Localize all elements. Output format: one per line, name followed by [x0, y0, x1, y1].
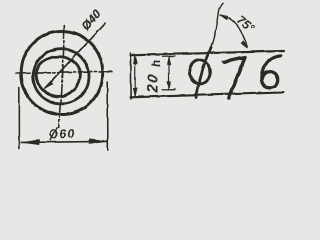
inner circle [36, 57, 80, 97]
height dimension line 20 [134, 55, 136, 96]
extension line right [106, 82, 108, 150]
big phi slant stroke extended (75 deg line) [196, 48, 211, 98]
phi symbol of 60 [49, 129, 57, 139]
digit 6 [261, 55, 280, 87]
svg-text:h: h [151, 59, 163, 66]
arc arrowhead lower [241, 40, 248, 48]
leader line phi40 [45, 23, 105, 88]
middle circle [33, 49, 89, 104]
big phi ellipse [189, 60, 209, 84]
rotated text 20 [144, 73, 161, 94]
arrow down of dim h [167, 81, 171, 89]
svg-text:60: 60 [59, 126, 75, 141]
dimension line phi60 [21, 141, 107, 142]
outer circle [21, 31, 103, 114]
digit-height dim top tick [162, 55, 175, 57]
text 75 deg [234, 13, 257, 35]
right view: top guide line [130, 51, 284, 55]
arrow down of dim 20 [133, 88, 137, 97]
arrow left of phi60 [21, 139, 39, 144]
horizontal center line [16, 71, 112, 73]
text phi40 (rotated along leader) [79, 7, 104, 33]
digit-height dim line h [168, 56, 170, 89]
leader arrowhead [44, 82, 52, 89]
digit-height dim bottom tick [162, 88, 175, 90]
phi slash of 60 [50, 127, 56, 139]
extension line left [18, 87, 20, 149]
right view: bottom guide line [130, 92, 284, 97]
arc arrowhead upper [220, 14, 228, 19]
digit 7 leg [228, 57, 244, 97]
left cap line [129, 53, 131, 99]
arrow up of dim 20 [133, 55, 137, 64]
digit 7 top bar [223, 57, 244, 62]
arrow right of phi60 [89, 139, 107, 144]
arrow up of dim h [167, 56, 171, 64]
svg-text:20: 20 [144, 73, 161, 94]
vertical center line [58, 25, 64, 127]
75 degree arc [220, 15, 247, 47]
text phi60 [49, 126, 75, 141]
rotated text h [151, 59, 163, 66]
